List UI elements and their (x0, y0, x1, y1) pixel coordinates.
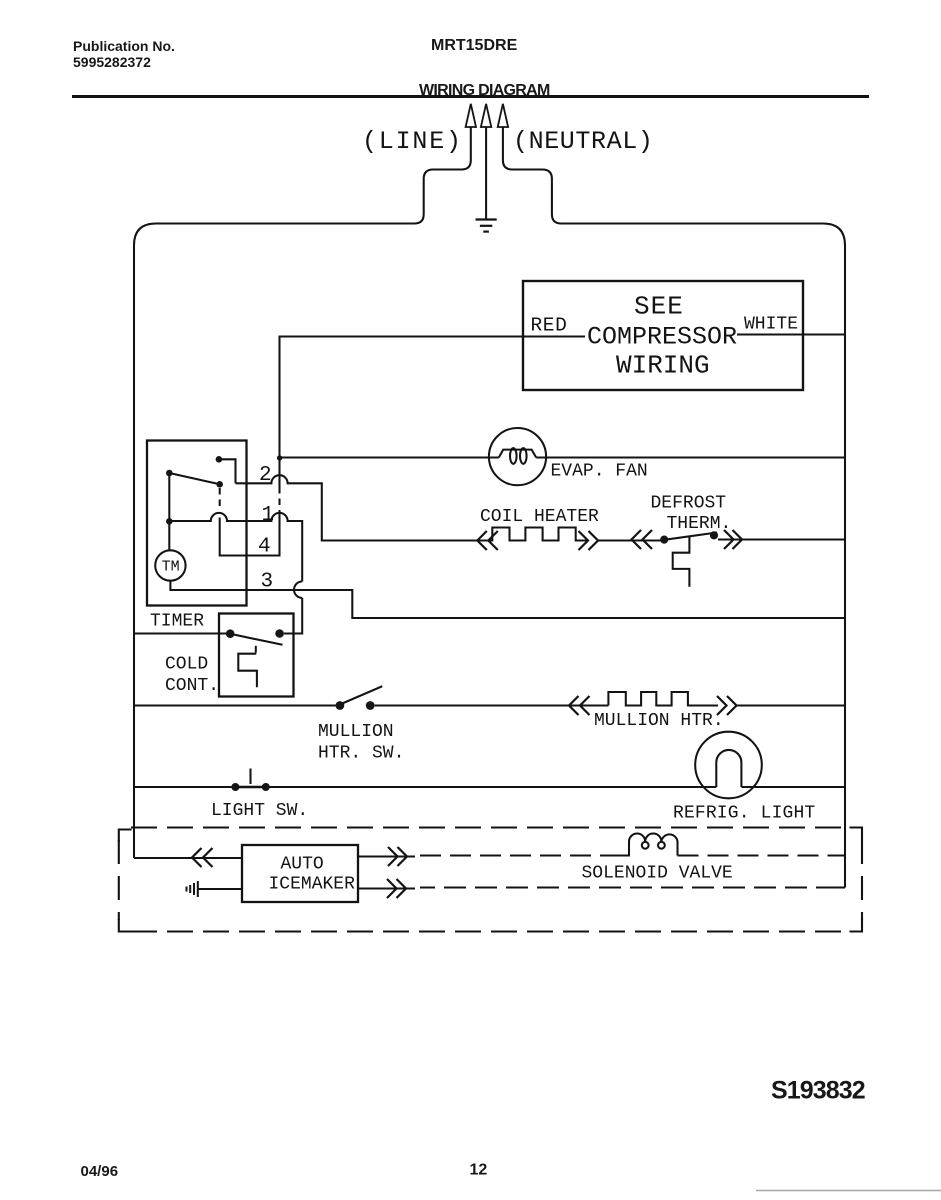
wire terminal 1 down to cold control (284, 598, 302, 634)
wire dashed solenoid to right edge (678, 854, 846, 856)
svg-text:TM: TM (162, 559, 180, 576)
lamp filament horseshoe (716, 750, 741, 787)
evap fan motor winding (499, 450, 536, 458)
evap fan motor M1 circle (489, 428, 546, 485)
svg-text:COMPRESSOR: COMPRESSOR (587, 323, 737, 352)
svg-text:ICEMAKER: ICEMAKER (269, 875, 356, 895)
refrigerator light lamp DS1 (695, 732, 762, 799)
svg-text:RED: RED (531, 315, 568, 337)
light switch plunger (249, 769, 251, 785)
timer motor TM (155, 550, 185, 580)
timer contact dot B (166, 470, 173, 477)
timer mechanical link dashed (219, 488, 221, 511)
defrost therm switch arm (664, 533, 717, 540)
wire dashed return from right edge (420, 886, 838, 888)
wire terminal 2 with hump over red drop (236, 475, 478, 540)
chassis ground icemaker (187, 881, 198, 897)
mullion switch contact dot left (336, 701, 345, 710)
icemaker left arrows (192, 848, 213, 867)
wire defrost therm to right edge (718, 538, 845, 540)
svg-text:REFRIG. LIGHT: REFRIG. LIGHT (673, 804, 815, 824)
svg-text:COIL HEATER: COIL HEATER (480, 507, 599, 527)
coil heater right arrows (579, 531, 599, 550)
timer contact dot D (166, 518, 173, 525)
wire left edge to cold control (134, 632, 226, 634)
timer contact dot C (216, 481, 223, 488)
header rule (72, 95, 869, 98)
svg-text:HTR. SW.: HTR. SW. (318, 744, 404, 764)
wire coil heater to defrost therm (598, 539, 661, 541)
svg-text:AUTO: AUTO (281, 855, 324, 875)
wire red from compressor to timer drop (280, 337, 586, 488)
cold control sensing step (238, 654, 257, 688)
coil heater element (477, 528, 588, 541)
coil heater left arrows (477, 531, 498, 550)
timer contact dot A (216, 456, 223, 463)
wire evap fan branch left (280, 456, 499, 458)
arrow head ground terminal (481, 104, 491, 127)
light switch bridge (235, 786, 265, 788)
svg-text:CONT.: CONT. (165, 676, 219, 696)
wire light branch from left edge (134, 786, 232, 788)
auto icemaker box A1 (242, 845, 358, 902)
svg-text:WHITE: WHITE (744, 315, 798, 335)
svg-text:COLD: COLD (165, 655, 208, 675)
wire from contact A to terminal 2 (219, 459, 236, 483)
light switch contact dot right (262, 783, 270, 791)
compressor box text (587, 292, 737, 381)
header publication number (73, 38, 175, 70)
mullion heater left arrows (569, 696, 590, 715)
wire evap fan branch right (536, 456, 845, 458)
mullion heater element (608, 692, 718, 706)
svg-text:S193832: S193832 (771, 1077, 865, 1105)
compressor box U1 (523, 281, 803, 390)
svg-text:SOLENOID VALVE: SOLENOID VALVE (582, 864, 733, 884)
svg-text:4: 4 (258, 536, 271, 559)
wire neutral supply to main box right edge (503, 127, 845, 888)
cold control contact dot right (275, 629, 284, 638)
solenoid valve coil L1 (620, 834, 678, 856)
svg-text:MULLION: MULLION (318, 722, 394, 742)
cold control mechanical link dashed (255, 646, 257, 653)
svg-text:MRT15DRE: MRT15DRE (431, 37, 518, 54)
wire terminal 1 with humps (169, 513, 302, 582)
svg-text:2: 2 (259, 464, 272, 487)
cold control box S1 (219, 614, 294, 697)
wire light switch to lamp (266, 786, 717, 788)
svg-text:EVAP. FAN: EVAP. FAN (551, 462, 648, 482)
footer scan mark (756, 1190, 941, 1192)
svg-text:TIMER: TIMER (150, 612, 204, 632)
wire red lower section to terminal 4 (220, 513, 280, 556)
svg-text:12: 12 (470, 1162, 488, 1179)
wire ground stem (485, 127, 487, 219)
icemaker bottom output arrows (387, 879, 406, 898)
wire mullion branch from left edge (134, 704, 336, 706)
svg-text:LIGHT SW.: LIGHT SW. (211, 801, 308, 821)
svg-text:MULLION HTR.: MULLION HTR. (594, 711, 724, 731)
wire dashed to solenoid (420, 854, 620, 856)
wire left edge into icemaker (134, 857, 242, 859)
mullion switch arm (341, 686, 382, 704)
wire terminal 1 hump over wire 3 (294, 582, 302, 598)
junction evap fan tap (277, 455, 282, 460)
svg-text:04/96: 04/96 (81, 1163, 119, 1180)
wire red dashed section inside timer column (278, 487, 280, 513)
wire ground to icemaker (198, 888, 242, 890)
svg-text:Publication No.: Publication No. (73, 38, 175, 54)
defrost therm sensing step (673, 536, 690, 587)
timer box T1 (147, 441, 247, 606)
svg-text:(LINE): (LINE) (362, 127, 463, 156)
icemaker top output arrows (388, 847, 407, 866)
svg-text:DEFROST: DEFROST (651, 494, 727, 514)
defrost therm left arrows (632, 530, 653, 549)
wire icemaker bottom output (358, 887, 415, 889)
icemaker dashed enclosure (119, 828, 862, 932)
timer switch arm B-C (169, 473, 219, 484)
wire mullion heater to right edge (737, 704, 846, 706)
timer left bus B to D (168, 473, 170, 521)
defrost therm contact dot left (660, 536, 668, 544)
svg-text:3: 3 (261, 571, 274, 594)
ground earth symbol (476, 220, 497, 232)
wire icemaker top output (358, 855, 415, 857)
wire mullion switch to heater (375, 704, 609, 706)
light switch contact dot left (231, 783, 239, 791)
svg-text:SEE: SEE (634, 292, 684, 322)
wire terminal 3 from TM (170, 581, 845, 618)
svg-text:(NEUTRAL): (NEUTRAL) (513, 127, 653, 156)
arrow head neutral terminal (498, 104, 508, 127)
defrost therm right arrows (724, 530, 742, 549)
cold control switch arm (230, 634, 282, 645)
defrost therm contact dot right (710, 531, 718, 539)
wire white compressor to right edge (737, 333, 845, 335)
wire line supply to main box left edge (134, 127, 471, 858)
svg-text:1: 1 (262, 504, 275, 527)
cold control contact dot left (226, 629, 235, 638)
mullion switch contact dot right (366, 701, 375, 710)
arrow head line terminal (466, 104, 476, 127)
wire lamp to right edge (741, 786, 845, 788)
svg-text:THERM.: THERM. (667, 514, 732, 534)
svg-text:5995282372: 5995282372 (73, 54, 151, 70)
svg-text:WIRING: WIRING (616, 351, 710, 381)
wire TM to motor circle (168, 521, 170, 550)
mullion heater right arrows (717, 696, 737, 715)
